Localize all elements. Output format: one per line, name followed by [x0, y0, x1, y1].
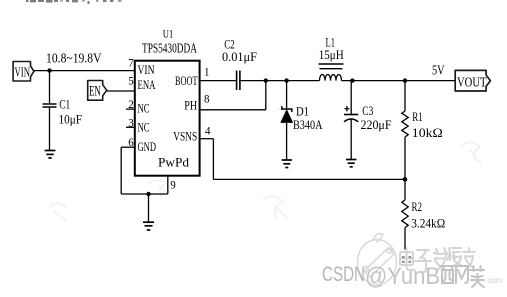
cropped caption text at top edge [26, 0, 122, 4]
ground under D1 [282, 160, 292, 168]
svg-text:1: 1 [204, 64, 210, 78]
svg-text:VSNS: VSNS [173, 128, 197, 143]
pin 3 NC stub [126, 126, 135, 128]
char 友 [463, 248, 475, 268]
wire: main rail left part (C2 to L1) [241, 80, 320, 82]
faint background scribbles [50, 109, 482, 220]
svg-text:U1: U1 [163, 27, 174, 41]
port flag EN [88, 81, 107, 101]
svg-text:15μH: 15μH [319, 47, 344, 62]
svg-text:5: 5 [128, 73, 134, 87]
wire: VSNS feedback horizontal [213, 178, 405, 180]
svg-text:B340A: B340A [293, 117, 323, 132]
svg-text:PH: PH [184, 98, 197, 113]
svg-text:8: 8 [204, 91, 210, 105]
watermark text 电子发烧友 [400, 248, 475, 272]
svg-text:C3: C3 [362, 103, 373, 118]
svg-text:9: 9 [170, 177, 176, 191]
svg-text:10.8~19.8V: 10.8~19.8V [46, 52, 102, 67]
wire: GND stem [148, 194, 150, 222]
wire: main rail right part (L1 to VOUT) [342, 80, 456, 82]
svg-text:.com: .com [485, 276, 503, 285]
wire: GND net left riser [120, 147, 122, 194]
wire: R1 to R2 [404, 137, 406, 200]
wire: GND net horizontal [121, 193, 168, 195]
wire: C1 stem bottom [49, 108, 51, 150]
port flag VOUT [455, 70, 490, 91]
char 风 [456, 266, 468, 283]
svg-text:@YunB: @YunB [365, 263, 440, 290]
pin 2 NC stub [126, 108, 135, 110]
char 电 [400, 252, 413, 265]
svg-text:220μF: 220μF [361, 117, 392, 132]
pin 8 PH wire [200, 109, 266, 111]
svg-text:10kΩ: 10kΩ [412, 125, 443, 140]
pin 6 GND stub [121, 146, 134, 148]
char 发 [434, 248, 446, 270]
watermark dark pixels in 电 [402, 256, 411, 263]
svg-text:NC: NC [138, 120, 150, 135]
wire: C1 stem top [49, 71, 51, 104]
wire: EN to U1 pin5 [107, 90, 135, 92]
svg-text:NC: NC [138, 101, 150, 116]
wire: VSNS feedback riser [212, 139, 214, 180]
node: R1 top junction [403, 78, 407, 82]
pin 9 PwPd stub [167, 176, 169, 194]
wire: D1 stem bottom [286, 123, 288, 160]
svg-text:VOUT: VOUT [457, 75, 487, 90]
wire: riser BOOT node to PH line [265, 81, 267, 110]
ground under U1 [143, 222, 154, 230]
node: VIN/C1 junction [47, 68, 51, 72]
node: C2/PH riser junction [264, 78, 268, 82]
capacitor C3 [344, 114, 358, 116]
svg-text:CSDN: CSDN [322, 263, 365, 286]
svg-text:10μF: 10μF [59, 111, 83, 126]
wire: C3 stem top [350, 81, 352, 114]
svg-text:EN: EN [89, 83, 101, 99]
ground under C1 [45, 151, 56, 159]
node: D1 junction [284, 78, 288, 82]
svg-text:TPS5430DDA: TPS5430DDA [142, 42, 198, 57]
svg-text:R2: R2 [412, 199, 423, 214]
wire: VIN to U1 pin7 [34, 70, 135, 72]
wire: C3 stem bottom [350, 120, 352, 160]
node: feedback junction [403, 177, 408, 182]
svg-text:4: 4 [205, 124, 211, 138]
svg-text:VIN: VIN [15, 65, 31, 80]
svg-text:VIN: VIN [138, 62, 155, 77]
ground under C3 [346, 160, 356, 167]
watermark logo circle [358, 234, 397, 285]
resistor R2 [402, 200, 408, 228]
capacitor C2 [236, 71, 238, 91]
node: GND net junction [146, 192, 150, 196]
svg-text:3.24kΩ: 3.24kΩ [411, 216, 445, 231]
svg-text:5V: 5V [432, 63, 445, 78]
resistor R1 [402, 111, 408, 137]
watermark 西风英 [440, 266, 484, 287]
capacitor C1 [43, 103, 57, 105]
wire: R2 bottom stem [404, 228, 406, 250]
svg-text:R1: R1 [412, 109, 423, 124]
capacitor C3 polarity plus [345, 106, 350, 111]
port flag VIN [13, 62, 34, 82]
svg-text:ENA: ENA [138, 77, 156, 92]
svg-text:BOOT: BOOT [175, 73, 198, 88]
svg-text:7: 7 [128, 55, 134, 69]
char 烧 [445, 248, 461, 266]
char 西 [440, 266, 455, 283]
char 子 [417, 250, 429, 272]
svg-text:GND: GND [138, 139, 157, 154]
pin 1 BOOT wire [200, 80, 236, 82]
wire: R1 top stem [404, 81, 406, 111]
node: C3 junction [350, 78, 354, 82]
svg-text:0.01μF: 0.01μF [222, 49, 257, 64]
diode D1 (schottky B340A) [281, 106, 293, 122]
svg-text:C1: C1 [59, 96, 70, 111]
char 英 [470, 266, 484, 287]
wire: D1 stem top [286, 81, 288, 109]
svg-text:PwPd: PwPd [158, 154, 189, 169]
pin 4 VSNS stub [200, 138, 214, 140]
op-amp U1 outline (IC TPS5430DDA) [135, 61, 200, 176]
